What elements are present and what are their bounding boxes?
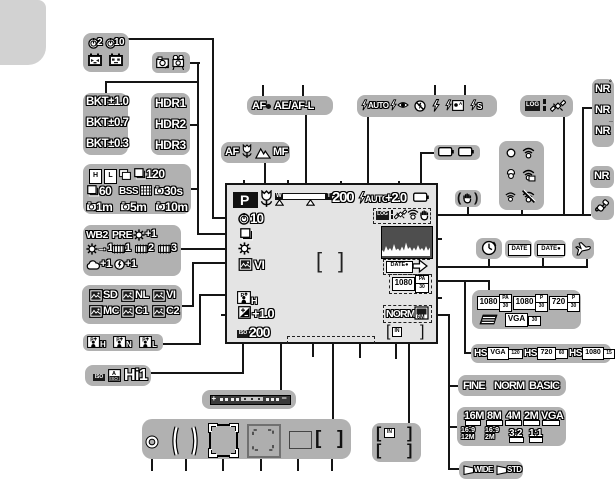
LCD: NORM quality (383, 305, 432, 323)
box: bracketing BKT (83, 93, 128, 155)
wire: P-plus box elbow (162, 343, 201, 345)
page corner tab (0, 0, 46, 65)
box: D-lighting levels (83, 334, 163, 351)
wire: self-timer box to LCD timer row (127, 38, 214, 40)
LCD: D-lighting badge (237, 291, 251, 304)
wire: HDR box stub (189, 124, 199, 126)
wire: IN bracket tick (395, 333, 397, 359)
wire: hand box drop (467, 206, 469, 216)
wire: 200 tick (340, 181, 342, 190)
wire: scene-icons box to LCD continuous row (189, 62, 200, 64)
box: airplane (572, 238, 594, 259)
box: continuous shooting (83, 164, 191, 214)
wire: +2.0 tick (398, 181, 400, 190)
LCD: zoom indicator (275, 193, 282, 200)
box: HS movie (471, 344, 611, 363)
wire: focus frame main line (332, 271, 334, 420)
LCD: P exposure mode (233, 192, 258, 208)
box: ISO Hi1 (85, 365, 151, 386)
wire: AF/AE box line and stubs (305, 115, 307, 193)
wire: flash box line and stubs (367, 117, 369, 191)
wire: NR bracket line (582, 107, 584, 216)
LCD: top-right status dashed box (373, 208, 431, 224)
wire: focus box bottom ticks (151, 459, 153, 471)
box: DATE counter (534, 240, 566, 258)
wire: zoom-bar tick (287, 180, 289, 192)
box: HDR (151, 93, 190, 155)
wire: continuous box stub (190, 188, 199, 190)
wire: movie line y280 (430, 280, 490, 282)
box: NR single (590, 166, 614, 188)
box: hand VR (455, 190, 481, 207)
wire: LOG box drop (563, 117, 565, 216)
box: clock (476, 238, 502, 259)
svg-text:6M: 6M (417, 315, 425, 321)
box: picture control (82, 285, 182, 324)
LCD: picture control VI (238, 258, 253, 271)
wire: P mode tick (243, 180, 245, 193)
box: batteries (434, 145, 480, 160)
LCD: continuous icon (240, 228, 253, 241)
box: exposure bar (202, 390, 296, 409)
box: IN brackets (372, 423, 421, 462)
LCD: ISO 200 (237, 330, 249, 338)
wire: tick y297 (428, 297, 442, 299)
LCD: self-timer 10 (238, 213, 250, 225)
LCD: bottom dashed area (287, 336, 375, 344)
wire: histogram tick (430, 238, 442, 240)
box: wide std (459, 461, 523, 479)
box: scene camera icons (152, 52, 190, 73)
wire: BKT box junction (105, 81, 107, 94)
LCD: brightness sun (238, 242, 251, 255)
wire: bracket box drop line (408, 339, 410, 424)
box: focus mode (221, 142, 290, 163)
wire: battery elbow (420, 152, 435, 154)
box: cable (591, 196, 614, 220)
wire: exposure-comp tick (221, 314, 237, 316)
wire: date line y267 (426, 266, 588, 268)
box: focus frames (142, 419, 351, 459)
box: image quality (458, 375, 566, 396)
box: image size (457, 407, 566, 446)
svg-text:ISO: ISO (110, 376, 118, 381)
box: movie options (472, 290, 581, 329)
box: DATE (505, 240, 532, 258)
LCD: center AF bracket (316, 248, 322, 274)
wire: WB box to sun row (180, 248, 227, 250)
LCD: movie 1080 option (389, 274, 432, 294)
LCD: DATE imprint + transfer arrow (383, 259, 430, 275)
box: AF AE-L (247, 96, 333, 115)
wire: ISO row to Hi1 box (242, 334, 244, 374)
wire: picture-control box elbow (181, 305, 194, 307)
box: self-timer smile timer (83, 33, 129, 72)
box: NR triple (592, 79, 614, 147)
wire: main right line y215 (437, 214, 591, 216)
LCD: histogram (381, 226, 433, 259)
box: flash modes (357, 95, 497, 117)
box: LOG satellite (520, 95, 573, 117)
LCD: exposure comp +1.0 (238, 306, 251, 319)
camera LCD monitor mock-up (225, 183, 438, 344)
wire: NORM line and right spine (431, 314, 450, 316)
box: wifi gps status (499, 141, 544, 210)
wire: wifi box drop (521, 210, 523, 216)
wire: tick below LCD right (359, 341, 361, 358)
wire: exposure bar drop line (280, 344, 282, 391)
LCD: shutter speed 200 (332, 189, 353, 206)
wire: tick below LCD left (312, 344, 314, 357)
LCD: exposures remaining brackets (386, 323, 390, 341)
LCD: macro flower (259, 190, 274, 208)
box: white balance (83, 225, 181, 276)
LCD: battery (413, 192, 429, 203)
LCD: flash AUTO +2.0 (358, 191, 366, 204)
wire: macro box to flower (264, 163, 266, 192)
